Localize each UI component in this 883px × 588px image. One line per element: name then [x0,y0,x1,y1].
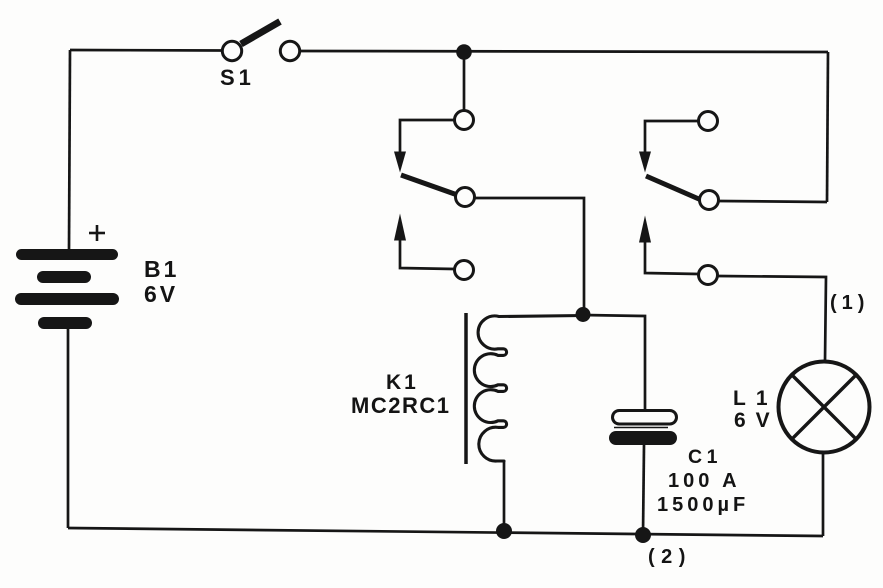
wire right contact NO arm [645,242,699,274]
wire top-left from battery to switch S1 [70,49,224,52]
relay contact right: lever [646,176,700,200]
junction node coil bottom on rail [496,523,512,539]
wire bottom rail [68,528,823,536]
capacitor C1 bottom plate solid [609,431,677,445]
wire left contact NC arm with arrow [400,120,455,153]
svg-text:MC2RC1: MC2RC1 [351,393,450,418]
svg-text:100 A: 100 A [668,470,741,492]
relay coil K1 winding [474,316,584,462]
relay contact right: down arrowhead [639,152,651,173]
wire left contact common to coil node [476,198,585,314]
lamp L1 circle [779,362,870,453]
junction node coil top [576,307,591,322]
svg-text:(1): (1) [830,292,869,314]
relay contact left: down arrowhead [394,152,406,173]
wire lamp bottom to bottom rail [822,453,825,536]
svg-text:B1: B1 [144,256,179,282]
wire coil bottom to bottom rail [503,461,506,531]
wire top from switch to right corner [298,51,828,52]
svg-text:(2): (2) [648,546,692,568]
battery B1 plate 2 short [37,271,91,283]
relay contact right: common circle [700,191,719,210]
relay contact right: NO terminal circle [699,266,718,285]
wire right contact NO to lamp top [718,276,826,361]
relay contact right: NC terminal circle [699,112,718,131]
battery B1 plate 4 short [38,317,92,329]
battery plus sign [89,225,105,241]
wire junction drop to left relay contact [463,52,466,111]
relay contact left: up arrowhead [394,214,406,241]
wire right vertical from top corner to relay contact [827,52,828,202]
wire left contact NO arm [400,240,455,269]
switch S1 left contact circle [222,41,241,60]
svg-text:K1: K1 [386,371,419,394]
junction node at top wire [456,44,472,60]
wire left vertical battery bottom [67,329,70,528]
wire right contact common to right vertical [719,201,827,202]
relay coil K1 core bar [464,313,468,464]
switch S1 lever [241,22,280,45]
wire left vertical battery top [69,50,70,249]
wire coil node to capacitor [583,315,645,411]
junction node capacitor bottom on rail [635,527,651,543]
battery B1 plate 1 long positive [16,249,118,260]
relay contact left: common circle [456,188,475,207]
svg-text:C1: C1 [688,446,722,468]
capacitor C1 top plate outline [613,411,677,425]
relay contact right: up arrowhead [639,216,651,243]
svg-text:6V: 6V [734,409,780,432]
svg-text:L1: L1 [733,387,778,410]
lamp L1 cross [792,375,856,439]
svg-text:S1: S1 [220,65,255,90]
wire right contact NC arm with arrow [645,121,699,153]
svg-text:1500µF: 1500µF [657,494,749,516]
capacitor C1 thin mid line [614,427,668,429]
switch S1 right contact circle [280,41,299,60]
svg-text:6V: 6V [144,281,178,307]
battery B1 plate 3 long [15,293,119,305]
relay contact left: NO terminal circle [455,261,474,280]
wire capacitor bottom to bottom rail [643,445,644,535]
relay contact left: lever [401,175,456,195]
relay contact left: NC terminal circle [455,111,474,130]
